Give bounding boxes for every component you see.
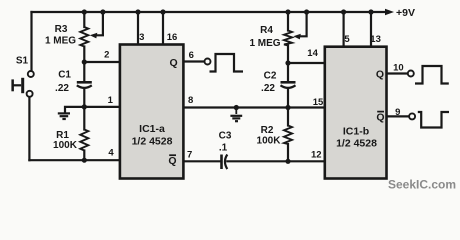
wire pin 5 stub bbox=[343, 12, 345, 47]
wire R3 wiper arm bbox=[97, 12, 103, 35]
svg-text:+9V: +9V bbox=[396, 7, 415, 19]
wire R2 bottom to pin12 wire bbox=[287, 144, 289, 161]
junction node pin14 bbox=[285, 60, 290, 65]
svg-text:1 MEG: 1 MEG bbox=[45, 35, 76, 46]
svg-text:1 MEG: 1 MEG bbox=[249, 38, 280, 49]
svg-text:7: 7 bbox=[187, 150, 192, 161]
output terminal pin 6 bbox=[205, 59, 211, 65]
waveform pulse at pin 10 bbox=[415, 66, 449, 84]
capacitor C1 bbox=[77, 82, 92, 88]
svg-text:100K: 100K bbox=[257, 136, 282, 147]
ground (pin 8/15 net) bbox=[230, 108, 242, 122]
svg-text:R3: R3 bbox=[55, 24, 68, 35]
IC IC1-b 1/2 4528 monostable bbox=[325, 47, 387, 179]
svg-text:1/2 4528: 1/2 4528 bbox=[336, 138, 377, 150]
pushbutton S1 bbox=[11, 71, 33, 97]
ground (pin 1 net) bbox=[58, 113, 70, 119]
potentiometer R3 arrowhead bbox=[90, 33, 98, 39]
wire C2 bottom to pin15 node to R2 top bbox=[287, 89, 289, 126]
svg-text:16: 16 bbox=[167, 32, 178, 43]
+9V supply arrow bbox=[385, 9, 394, 15]
svg-text:9: 9 bbox=[395, 107, 400, 118]
wire pin 10 bbox=[387, 72, 408, 74]
wire R3 bottom to pin2 node to C1 bbox=[83, 47, 85, 82]
svg-text:C3: C3 bbox=[219, 130, 232, 141]
wire S1 bottom to bottom rail bbox=[28, 97, 30, 160]
svg-text:100K: 100K bbox=[53, 140, 78, 151]
junction node rail-R3 bbox=[82, 9, 87, 14]
svg-text:12: 12 bbox=[311, 150, 322, 161]
junction node rail-pin5 bbox=[341, 9, 346, 14]
svg-text:C1: C1 bbox=[58, 70, 71, 81]
capacitor C3 bbox=[222, 155, 228, 170]
junction node rail-R4 wiper bbox=[304, 9, 309, 14]
wire pin 2 bbox=[84, 61, 120, 63]
svg-text:13: 13 bbox=[370, 34, 381, 45]
wire pin 14 bbox=[288, 62, 325, 64]
svg-text:1/2 4528: 1/2 4528 bbox=[132, 136, 173, 148]
svg-text:IC1-a: IC1-a bbox=[139, 123, 165, 135]
svg-text:S1: S1 bbox=[16, 56, 29, 67]
junction node pin1 bbox=[82, 104, 87, 109]
svg-text:1: 1 bbox=[108, 95, 114, 106]
svg-text:Q: Q bbox=[376, 111, 384, 123]
wire pin 1 with ground branch bbox=[65, 107, 120, 113]
wire R3 branch rail to zigzag bbox=[83, 12, 85, 27]
capacitor C2 bbox=[281, 82, 296, 88]
waveform pulse at pin 6 bbox=[210, 54, 244, 72]
svg-text:3: 3 bbox=[139, 32, 144, 43]
junction node rail-R3 wiper bbox=[100, 9, 105, 14]
wire pin 8 to pin 15 bbox=[183, 106, 324, 108]
svg-text:15: 15 bbox=[313, 97, 324, 108]
svg-text:2: 2 bbox=[104, 49, 109, 60]
resistor R3 zigzag bbox=[80, 27, 88, 47]
wire pin 6 bbox=[183, 60, 204, 62]
junction node pin15 bbox=[285, 105, 290, 110]
svg-text:R4: R4 bbox=[260, 25, 273, 36]
resistor R2 zigzag bbox=[284, 126, 292, 145]
svg-text:C2: C2 bbox=[264, 70, 277, 81]
wire left rail from S1 top to rail bbox=[30, 12, 32, 71]
svg-text:.22: .22 bbox=[55, 83, 69, 94]
wire R1 bottom to bottom rail bbox=[83, 151, 85, 161]
waveform inverted pulse at pin 9 bbox=[418, 112, 449, 128]
wire pin 9 bbox=[387, 115, 410, 117]
svg-text:.22: .22 bbox=[261, 83, 275, 94]
IC IC1-a 1/2 4528 monostable bbox=[120, 45, 183, 179]
svg-text:Q: Q bbox=[168, 155, 176, 167]
wire R4 wiper arm bbox=[300, 12, 307, 36]
svg-text:SeekIC.com: SeekIC.com bbox=[388, 178, 456, 192]
wire C3 to pin 12 bbox=[227, 160, 324, 162]
wire R4 branch rail to zigzag bbox=[287, 12, 289, 31]
svg-text:IC1-b: IC1-b bbox=[343, 126, 369, 138]
wire pin 3 stub bbox=[137, 12, 139, 45]
junction node ground 2 bbox=[234, 105, 239, 110]
svg-text:14: 14 bbox=[307, 48, 318, 59]
svg-text:5: 5 bbox=[344, 34, 350, 45]
wire top rail +9V bus bbox=[32, 11, 386, 13]
junction node pin12 bbox=[285, 159, 290, 164]
junction node R1 bottom bbox=[82, 158, 87, 163]
junction node rail-pin3 bbox=[135, 9, 140, 14]
junction node rail-R4 bbox=[285, 9, 290, 14]
svg-text:.1: .1 bbox=[219, 143, 228, 154]
wire pin 16 stub bbox=[162, 12, 164, 45]
junction node rail-pin16 bbox=[160, 9, 165, 14]
wire pin 7 to C3 bbox=[183, 160, 220, 162]
output terminal pin 10 bbox=[408, 71, 414, 77]
potentiometer R4 arrowhead bbox=[293, 34, 301, 40]
svg-text:6: 6 bbox=[189, 50, 194, 61]
svg-text:4: 4 bbox=[108, 147, 114, 158]
svg-text:Q: Q bbox=[376, 68, 384, 80]
junction node rail-pin13 bbox=[368, 9, 373, 14]
resistor R4 zigzag bbox=[284, 31, 292, 46]
wire R4 bottom to pin14 node to C2 bbox=[287, 46, 289, 82]
wire C1 bottom to pin1 node to R1 top bbox=[83, 89, 85, 130]
svg-text:R2: R2 bbox=[261, 125, 274, 136]
output terminal pin 9 bbox=[409, 113, 415, 119]
svg-text:Q: Q bbox=[170, 57, 178, 69]
junction node pin2 bbox=[82, 59, 87, 64]
wire bottom rail to pin 4 bbox=[29, 159, 120, 161]
wire pin 13 stub bbox=[370, 12, 372, 47]
svg-text:8: 8 bbox=[188, 95, 193, 106]
svg-text:10: 10 bbox=[393, 62, 404, 73]
resistor R1 zigzag bbox=[80, 130, 88, 151]
